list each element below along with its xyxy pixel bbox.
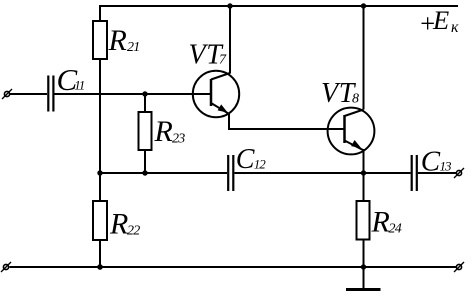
svg-text:R: R <box>109 208 128 241</box>
resistor R21 <box>93 21 107 59</box>
svg-text:C: C <box>236 144 255 175</box>
label +Ek supply <box>419 5 460 38</box>
capacitor C12 <box>228 155 233 191</box>
resistor R23 <box>139 112 152 150</box>
node junction left rail / mid wire <box>97 170 102 175</box>
svg-text:13: 13 <box>440 159 453 174</box>
node junction top rail / VT7 collector <box>227 3 232 8</box>
wire R21 bottom lead down left rail (crosses base wire, no dot) <box>99 59 101 201</box>
label R24 <box>371 206 402 239</box>
wire C11 to VT7 base <box>55 93 212 95</box>
resistor R24 <box>357 201 370 240</box>
label R22 <box>109 208 140 241</box>
svg-text:22: 22 <box>127 224 140 239</box>
wire VT8 collector to top rail <box>363 6 365 110</box>
terminal input (circle with slash) <box>2 89 12 99</box>
svg-text:7: 7 <box>219 53 227 68</box>
capacitor C11 <box>48 76 53 112</box>
terminal bottom-left (circle with slash) <box>1 262 11 272</box>
node junction mid wire / R23 <box>142 170 147 175</box>
svg-text:11: 11 <box>74 77 85 92</box>
terminal bottom-right (circle with slash) <box>454 262 464 272</box>
capacitor C13 <box>412 155 417 191</box>
label R23 <box>154 115 186 148</box>
wire mid wire left segment <box>100 172 227 174</box>
resistor R22 <box>93 201 107 240</box>
wire R23 top lead <box>144 94 146 112</box>
wire bottom rail <box>10 266 457 268</box>
svg-text:E: E <box>432 5 449 35</box>
svg-text:24: 24 <box>389 222 402 237</box>
wire R21 top lead from rail <box>99 5 101 21</box>
node junction bottom rail / R22 <box>97 264 102 269</box>
svg-text:к: к <box>451 19 459 36</box>
wire VT7 collector to top rail <box>229 6 231 74</box>
wire top supply rail <box>100 5 458 7</box>
wire R23 bottom lead <box>144 150 146 173</box>
node junction base wire / R23 <box>142 91 147 96</box>
node junction mid wire / VT8 emitter / R24 <box>361 170 366 175</box>
svg-text:R: R <box>108 24 127 57</box>
label VT7 <box>189 39 228 70</box>
terminal output (circle with slash) <box>454 168 464 178</box>
node junction bottom rail / R24 / ground <box>361 264 366 269</box>
transistor VT7 <box>193 71 239 117</box>
label C11 <box>57 62 85 97</box>
wire mid wire right segment <box>234 172 410 174</box>
wire R22 bottom lead to ground rail <box>99 240 101 267</box>
wire R24 top lead <box>363 173 365 201</box>
label C12 <box>236 144 266 175</box>
transistor VT8 <box>328 108 375 155</box>
svg-text:21: 21 <box>127 40 139 55</box>
label C13 <box>421 145 452 177</box>
wire C13 to output terminal <box>418 172 456 174</box>
wire R24 bottom lead <box>363 240 365 268</box>
label VT8 <box>321 78 359 109</box>
svg-text:R: R <box>371 206 390 239</box>
label R21 <box>108 24 140 57</box>
svg-text:12: 12 <box>254 157 266 172</box>
wire VT7 emitter to VT8 base <box>229 113 345 129</box>
wire input to C11 <box>10 93 47 95</box>
svg-text:23: 23 <box>172 132 185 147</box>
ground <box>346 267 381 290</box>
node junction top rail / VT8 collector <box>361 3 366 8</box>
svg-text:8: 8 <box>352 92 359 107</box>
wire VT8 emitter down to mid wire <box>363 149 365 173</box>
svg-text:R: R <box>154 115 173 148</box>
node junction left rail / bottom rail <box>97 264 102 269</box>
